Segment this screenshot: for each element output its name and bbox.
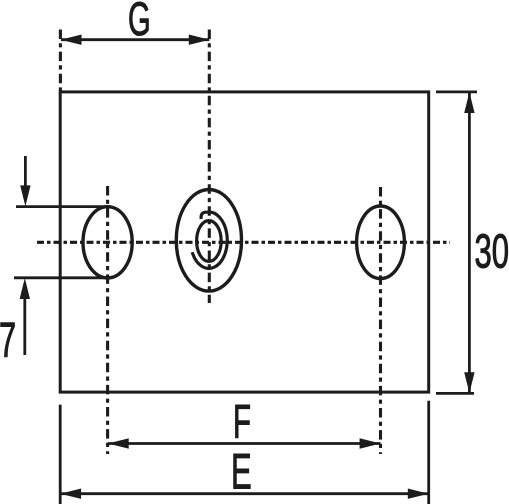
right hole (357, 206, 405, 279)
middle hole outer ellipse (176, 190, 241, 292)
F dimension line (108, 442, 381, 445)
svg-text:G: G (128, 0, 151, 46)
left hole (83, 207, 132, 278)
7 dimension top tangent line (16, 205, 108, 208)
svg-text:F: F (233, 396, 251, 449)
7 dimension bottom tangent line (14, 276, 105, 279)
horizontal centerline (37, 241, 450, 244)
svg-text:E: E (231, 443, 252, 499)
30 dimension bottom extension line (436, 392, 474, 395)
30 dimension arrow up (464, 92, 474, 113)
30 dimension top extension line (436, 91, 477, 94)
middle hole thread spiral (192, 212, 227, 268)
G dimension arrow left (61, 35, 82, 45)
E dimension line (60, 492, 429, 495)
E left extension line (59, 405, 62, 504)
E dimension arrow left (60, 489, 81, 499)
G dimension line (61, 38, 209, 41)
right hole centerline (379, 187, 382, 454)
7 dimension up arrow (23, 298, 26, 355)
G left extension line (dashed, above plate) (59, 30, 62, 92)
7 dimension down arrow (24, 156, 27, 186)
svg-text:7: 7 (0, 312, 16, 367)
plate outline (60, 92, 429, 392)
G dimension arrow right (189, 35, 210, 45)
svg-text:30: 30 (475, 224, 509, 279)
F dimension arrow left (108, 438, 129, 448)
F dimension arrow right (360, 438, 381, 448)
middle hole inner ellipse (197, 221, 222, 262)
E dimension arrow right (408, 489, 429, 499)
E right extension line (427, 401, 430, 504)
left hole centerline (106, 186, 109, 454)
30 dimension arrow down (464, 372, 474, 393)
middle hole centerline (208, 30, 211, 304)
30 dimension line (468, 92, 471, 393)
